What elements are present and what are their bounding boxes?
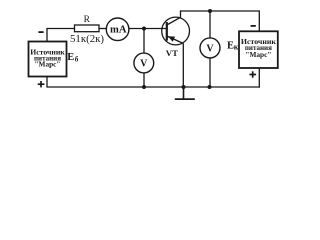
- svg-text:"Марс": "Марс": [35, 61, 61, 69]
- label Ек (right supply EMF): [227, 40, 239, 51]
- voltmeter PV2 (V, collector-emitter): [200, 38, 220, 58]
- plus terminal label (left supply): [38, 81, 45, 87]
- svg-text:V: V: [140, 58, 148, 69]
- wire: milliammeter to transistor base: [129, 28, 167, 30]
- wire: bottom rail: [46, 86, 260, 88]
- node: collector junction dot: [208, 9, 212, 13]
- svg-text:б: б: [75, 56, 79, 64]
- wire: voltmeter V2 to bottom rail: [209, 58, 211, 87]
- wire: top rail drop to right supply: [258, 10, 260, 31]
- svg-text:V: V: [206, 43, 214, 54]
- transistor VT (PNP): [162, 17, 190, 45]
- svg-text:VT: VT: [166, 48, 179, 58]
- svg-text:Е: Е: [67, 52, 74, 63]
- svg-text:R: R: [84, 15, 91, 25]
- wire: emitter lead down to rail: [182, 43, 184, 87]
- wire: right supply bottom lead: [258, 68, 260, 88]
- wire: top collector rail: [180, 10, 259, 12]
- wire: left supply bottom lead: [46, 77, 48, 88]
- power supply G2 "Источник питания Марс" (right box): [239, 31, 278, 68]
- resistor R: [75, 25, 100, 32]
- wire: resistor to milliammeter: [99, 28, 107, 30]
- svg-text:51к(2к): 51к(2к): [70, 34, 104, 45]
- minus terminal label (right supply): [251, 25, 256, 27]
- wire: left supply top lead: [46, 29, 48, 42]
- wire: collector lead up: [180, 11, 182, 18]
- wire: junction down to voltmeter V2: [209, 11, 211, 38]
- node: V2 rail junction dot: [208, 85, 212, 89]
- svg-text:к: к: [234, 43, 239, 52]
- node: base junction dot: [142, 27, 146, 31]
- svg-text:"Марс": "Марс": [245, 51, 271, 59]
- ground: [175, 87, 195, 99]
- node: V1 rail junction dot: [142, 85, 146, 89]
- voltmeter PV1 (V, base-emitter): [134, 53, 154, 73]
- plus terminal label (right supply): [249, 71, 256, 77]
- minus terminal label (left supply): [38, 31, 43, 33]
- label Еб (left supply EMF): [67, 52, 78, 63]
- wire: junction down to voltmeter V1: [143, 29, 145, 54]
- node: emitter rail junction dot: [182, 85, 186, 89]
- milliammeter PA1 (mA): [106, 18, 129, 41]
- wire: voltmeter V1 to bottom rail: [143, 73, 145, 87]
- power supply G1 "Источник питания Марс" (left box): [29, 42, 67, 77]
- svg-text:mA: mA: [110, 25, 127, 36]
- wire: base row, supply to resistor: [46, 28, 74, 30]
